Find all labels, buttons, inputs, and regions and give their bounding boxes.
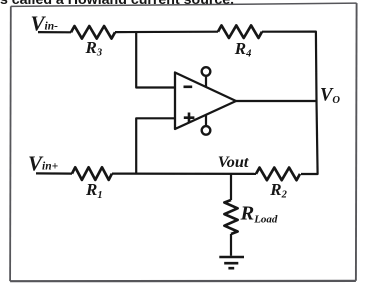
power pin circle top [202, 67, 211, 76]
svg-text:Vin-: Vin- [31, 12, 59, 36]
svg-text:R1: R1 [85, 180, 103, 201]
svg-text:Vout: Vout [218, 153, 249, 171]
svg-text:R4: R4 [234, 39, 252, 60]
resistor RLoad [224, 200, 237, 234]
wire top from Vin- to R3 [38, 31, 71, 33]
power pin stub bottom [205, 115, 207, 126]
svg-text:R2: R2 [269, 180, 287, 201]
power pin stub top [205, 76, 207, 87]
svg-text:R3: R3 [85, 38, 103, 59]
resistor R4 [218, 25, 262, 38]
svg-text:Vin+: Vin+ [28, 152, 59, 176]
op-amp U1 [175, 73, 236, 130]
plus input symbol [184, 113, 195, 123]
wire Vin+ to R1 [36, 172, 72, 174]
wire RLoad to ground [230, 234, 232, 256]
wire R3 to R4 via node A [115, 31, 218, 34]
resistor R3 [71, 26, 115, 39]
wire noninverting input [136, 118, 175, 173]
wire node A vertical to inverting input [136, 32, 175, 87]
wire Vout junction down to RLoad [230, 174, 232, 201]
resistor R2 [256, 168, 300, 181]
wire R1 to R2 through junctions [112, 173, 256, 175]
ground [219, 257, 244, 268]
svg-text:VO: VO [320, 86, 340, 106]
wire right rail lower [301, 101, 318, 174]
minus input symbol [184, 86, 193, 89]
output wire to Vo [236, 100, 317, 102]
svg-text:RLoad: RLoad [240, 202, 278, 225]
resistor R1 [72, 167, 112, 180]
wire R4 to right rail corner [262, 32, 317, 101]
power pin circle bottom [202, 126, 211, 135]
